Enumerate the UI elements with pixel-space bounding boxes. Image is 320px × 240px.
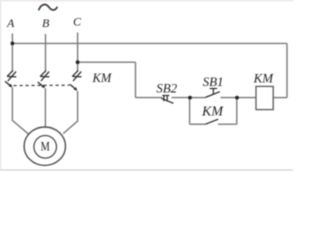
svg-text:A: A xyxy=(6,16,15,30)
wire top bus xyxy=(12,42,287,44)
wire phase B vertical top xyxy=(45,34,47,71)
wire branch right vertical xyxy=(236,98,238,125)
svg-text:KM: KM xyxy=(253,70,275,85)
svg-text:SB2: SB2 xyxy=(156,81,177,96)
wire branch left vertical xyxy=(189,98,191,125)
junction dot right of SB1 xyxy=(235,96,239,100)
wire coil to right edge xyxy=(273,97,287,99)
svg-text:KM: KM xyxy=(92,71,112,85)
AC supply tilde xyxy=(39,5,58,11)
wire control tap horizontal xyxy=(78,61,136,63)
wire junction to coil xyxy=(237,97,256,99)
svg-text:B: B xyxy=(42,16,50,30)
wire phase A vertical top xyxy=(11,34,13,71)
svg-text:C: C xyxy=(73,15,82,29)
wire phase A lower xyxy=(12,88,28,134)
contactor KM main contact pole 3 (phase C) xyxy=(70,70,82,90)
junction dot left of SB1 xyxy=(188,96,192,100)
auxiliary contact KM (self-holding, NO) xyxy=(206,119,219,124)
wire rung to SB2 xyxy=(136,97,163,99)
wire phase B lower xyxy=(44,88,46,127)
contactor KM main contact pole 2 (phase B) xyxy=(38,70,50,88)
wire junction to SB1 xyxy=(190,97,206,99)
junction dot at A x bus xyxy=(11,42,15,46)
svg-text:SB1: SB1 xyxy=(203,74,224,89)
wire phase C lower xyxy=(63,91,77,134)
junction dot control tap on phase C xyxy=(76,60,80,64)
pushbutton SB2 (NC stop button) xyxy=(161,96,173,104)
contactor coil KM box xyxy=(256,86,273,109)
motor M outer circle xyxy=(24,127,65,165)
wire control left vertical xyxy=(135,62,137,97)
wire SB2 to junction xyxy=(172,97,191,99)
svg-text:M: M xyxy=(41,138,51,153)
wire phase C vertical top xyxy=(77,33,79,71)
pushbutton SB1 (NO start button) xyxy=(206,89,220,98)
mechanical linkage dashed line xyxy=(14,84,70,86)
wire right vertical return xyxy=(286,43,288,97)
wire SB1 to junction xyxy=(221,97,238,99)
contactor KM main contact pole 1 (phase A) xyxy=(5,70,16,87)
svg-text:KM: KM xyxy=(201,105,224,120)
wire branch bottom left xyxy=(190,123,206,125)
wire branch bottom right xyxy=(218,123,237,125)
motor M inner circle xyxy=(34,136,57,159)
